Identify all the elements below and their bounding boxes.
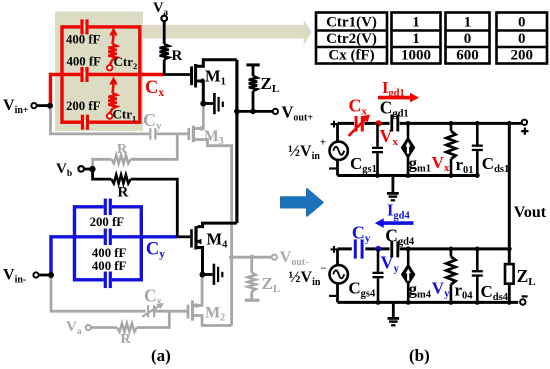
svg-text:Ctr2(V): Ctr2(V) bbox=[326, 31, 377, 47]
svg-text:1: 1 bbox=[412, 31, 420, 47]
svg-text:Cx (fF): Cx (fF) bbox=[328, 48, 374, 64]
svg-text:1000: 1000 bbox=[401, 48, 431, 64]
svg-text:R: R bbox=[172, 48, 183, 64]
svg-text:Vout: Vout bbox=[514, 204, 547, 221]
svg-text:Ctr1(V): Ctr1(V) bbox=[326, 15, 377, 31]
svg-text:(b): (b) bbox=[409, 346, 430, 365]
svg-text:1: 1 bbox=[464, 15, 472, 31]
svg-text:200: 200 bbox=[511, 48, 534, 64]
svg-text:400 fF: 400 fF bbox=[66, 33, 101, 47]
svg-text:(a): (a) bbox=[151, 346, 171, 365]
svg-text:0: 0 bbox=[464, 31, 472, 47]
svg-text:600: 600 bbox=[456, 48, 479, 64]
svg-text:0: 0 bbox=[518, 31, 526, 47]
svg-text:0: 0 bbox=[518, 15, 526, 31]
svg-text:R: R bbox=[121, 332, 132, 347]
svg-text:R: R bbox=[118, 185, 129, 201]
svg-text:200 fF: 200 fF bbox=[90, 215, 125, 229]
svg-text:1: 1 bbox=[412, 15, 420, 31]
svg-text:200 fF: 200 fF bbox=[66, 99, 101, 113]
svg-text:400 fF: 400 fF bbox=[67, 55, 102, 69]
svg-text:400 fF: 400 fF bbox=[92, 259, 127, 273]
svg-text:R: R bbox=[117, 142, 128, 157]
